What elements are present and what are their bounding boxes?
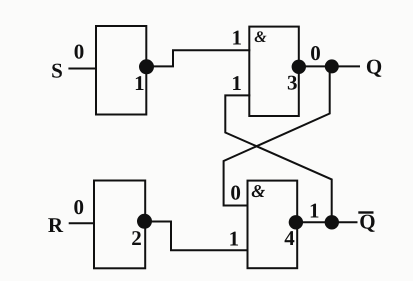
wire gate3 input 1 to Qbar feedback	[225, 95, 331, 222]
gate U3 box (&)	[249, 27, 298, 116]
svg-text:2: 2	[131, 226, 142, 250]
overline of Qbar	[358, 211, 373, 213]
svg-text:0: 0	[230, 181, 241, 205]
svg-text:Q: Q	[366, 55, 382, 79]
svg-text:1: 1	[231, 71, 242, 95]
svg-text:1: 1	[309, 198, 320, 222]
svg-text:4: 4	[284, 226, 295, 250]
wire gate3 output to Q	[299, 65, 359, 67]
gate4 output bubble node 4	[289, 215, 303, 229]
wire Q feedback to gate4 input 0	[224, 66, 330, 205]
inverter bubble node 2	[137, 214, 152, 229]
wire inverter1 to gate3 top input	[147, 50, 249, 66]
junction dot at Qbar	[325, 215, 339, 229]
svg-text:0: 0	[310, 41, 321, 65]
svg-text:0: 0	[74, 195, 85, 219]
gate3 output bubble node 3	[292, 60, 306, 74]
wire inverter2 to gate4 bottom input	[145, 222, 248, 251]
wire S input	[69, 68, 96, 70]
svg-text:R: R	[48, 213, 64, 237]
gate U4 box (&)	[248, 181, 298, 269]
svg-text:1: 1	[134, 71, 145, 95]
inverter box 2 (R input)	[94, 181, 145, 269]
wire gate4 output to Qbar	[296, 221, 357, 223]
svg-text:3: 3	[287, 71, 298, 95]
wire R input	[70, 222, 94, 224]
svg-text:1: 1	[229, 227, 240, 251]
svg-text:&: &	[251, 181, 265, 201]
junction dot at Q	[325, 59, 339, 73]
svg-text:&: &	[254, 29, 267, 46]
svg-text:0: 0	[74, 40, 85, 64]
svg-text:S: S	[51, 59, 63, 83]
inverter box 1 (S input)	[96, 26, 146, 115]
inverter bubble node 1	[139, 59, 154, 74]
svg-text:1: 1	[232, 26, 243, 50]
